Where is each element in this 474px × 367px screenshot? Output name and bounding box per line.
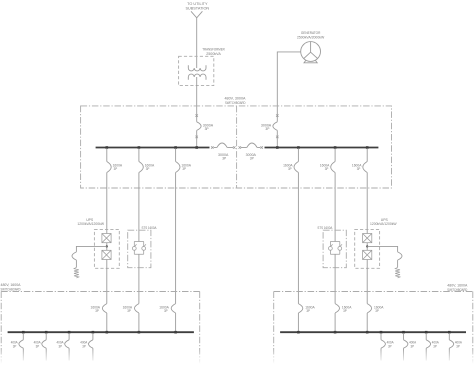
node: bus B feeder tap 1: [297, 146, 300, 149]
wire: bus D to feeder 1: [380, 333, 382, 340]
wire: breaker D3 to bus D: [366, 313, 368, 332]
svg-text:3P: 3P: [325, 167, 329, 171]
svg-text:3P: 3P: [357, 167, 361, 171]
wire: STS A output: [138, 254, 140, 303]
wire: feeder D2 load tail: [403, 348, 405, 360]
svg-text:SWITCHBOARD: SWITCHBOARD: [225, 101, 246, 105]
wire: breaker D2 to bus D: [334, 313, 336, 332]
incoming breaker D1 1600A: [298, 304, 302, 313]
svg-text:3P: 3P: [222, 157, 226, 161]
tie breaker left drawout contact: [211, 146, 214, 149]
wire: transformer secondary to switchboard: [196, 77, 198, 122]
wire: feeder C1 load tail: [22, 348, 24, 360]
wire: feeder A3 direct drop: [175, 173, 177, 304]
wire: breaker D1 to bus D: [297, 313, 299, 332]
wire: bus D to feeder 4: [448, 333, 450, 340]
wire: breaker 52-G1 to bus B: [276, 130, 278, 147]
node: bus C feeder tap 3: [68, 331, 71, 334]
wire: feeder B3 to UPS B: [366, 173, 368, 234]
wire: generator to switchboard: [277, 52, 300, 122]
wire: bus A to feeder breaker 1: [106, 148, 108, 161]
incoming breaker C3 1600A: [171, 304, 175, 313]
bus A 480V left: [96, 147, 210, 149]
node: bus C feeder tap 1: [22, 331, 25, 334]
svg-text:3P: 3P: [456, 344, 460, 348]
svg-text:3P: 3P: [411, 344, 415, 348]
incoming breaker D3 1600A: [367, 304, 371, 313]
svg-text:480V, 3000A: 480V, 3000A: [225, 97, 247, 101]
svg-text:3P: 3P: [82, 344, 86, 348]
node: bus D feeder tap 3: [425, 331, 428, 334]
svg-text:3P: 3P: [205, 127, 209, 131]
feeder breaker C2 label: [34, 341, 41, 349]
svg-text:3P: 3P: [95, 309, 99, 313]
UPS B rectifier: [363, 234, 372, 243]
tie breaker left 3000A: [217, 143, 227, 148]
bus D 480V 1600A: [280, 331, 466, 333]
switchboard C 480V 1600A label: [1, 283, 22, 292]
switchboard 480V 3000A enclosure: [81, 106, 392, 188]
incoming breaker C2 1600A: [135, 304, 139, 313]
svg-text:480V, 1600A: 480V, 1600A: [447, 283, 468, 287]
switchboard D 480V 1600A label: [447, 283, 468, 292]
feeder breaker D4 label: [455, 341, 462, 349]
node: bus D incomer tap 2: [334, 331, 337, 334]
node: TO UTILITY SUBSTATION label: [185, 2, 209, 11]
feeder breaker D1 label: [387, 341, 394, 349]
wire: breaker C2 to bus C: [138, 313, 140, 332]
STS B static switch: [329, 242, 343, 255]
wire: tie left stub: [214, 147, 217, 149]
wire: bus B to feeder breaker 1: [297, 148, 299, 161]
feeder breaker B3 1600A: [363, 162, 367, 173]
STS B label: [317, 226, 332, 230]
svg-text:2500kVA: 2500kVA: [206, 52, 221, 56]
wire: bus B to feeder breaker 3: [366, 148, 368, 161]
svg-text:3P: 3P: [375, 309, 379, 313]
node: bus A transformer tap: [195, 146, 198, 149]
feeder breaker B2 label: [320, 163, 330, 171]
wire: feeder B2 to STS B: [334, 173, 336, 242]
svg-text:STS 1600A: STS 1600A: [317, 226, 332, 230]
svg-text:3P: 3P: [59, 344, 63, 348]
breaker main 52-T1 drawout contact bottom: [195, 136, 198, 139]
node: bus D feeder tap 2: [402, 331, 405, 334]
bus C 480V 1600A: [8, 331, 194, 333]
tie breaker right label: [246, 153, 257, 161]
breaker main 52-T1 drawout contact top: [195, 114, 198, 117]
switchboard D enclosure: [274, 292, 473, 365]
svg-text:3P: 3P: [127, 309, 131, 313]
switchboard center divider: [236, 106, 238, 188]
feeder breaker D1 400A: [381, 340, 385, 348]
wire: bus B to feeder breaker 2: [334, 148, 336, 161]
node: bus A feeder tap 3: [174, 146, 177, 149]
node: bus B feeder tap 3: [366, 146, 369, 149]
wire: bus A to feeder breaker 3: [175, 148, 177, 161]
STS A static switch: [132, 242, 146, 255]
wire: breaker 52-T1 to bus A: [196, 130, 198, 147]
wire: tie left to divider: [227, 147, 233, 149]
wire: breaker C1 to bus C: [106, 313, 108, 332]
node: bus C feeder tap 2: [45, 331, 48, 334]
breaker main 52-G1 drawout contact top: [276, 114, 279, 117]
node: bus D feeder tap 1: [380, 331, 383, 334]
tie breaker left label: [218, 153, 229, 161]
tie breaker right 3000A: [247, 143, 257, 148]
wire: bus D to feeder 3: [425, 333, 427, 340]
incoming breaker D2 1600A: [335, 304, 339, 313]
wire: feeder D3 load tail: [425, 348, 427, 360]
wire: feeder C3 load tail: [68, 348, 70, 360]
wire: tie right to bus B: [257, 147, 260, 149]
wire: UPS B output: [366, 260, 368, 304]
wire: rectifier to inverter B: [366, 243, 368, 251]
wire: bus A to feeder breaker 2: [138, 148, 140, 161]
wire: rectifier to inverter: [106, 243, 108, 251]
wire: feeder A2 to STS A: [138, 173, 140, 242]
node: bus C incomer tap 3: [174, 331, 177, 334]
svg-text:3P: 3P: [306, 309, 310, 313]
node: bus D feeder tap 4: [448, 331, 451, 334]
svg-text:3P: 3P: [250, 157, 254, 161]
wire: bus C to feeder 1: [22, 333, 24, 340]
UPS B enclosure: [355, 229, 380, 268]
transformer T1 label: [202, 47, 225, 56]
incoming breaker D3 label: [374, 305, 384, 313]
node: bus A feeder tap 2: [138, 146, 141, 149]
UPS A battery breaker: [72, 252, 76, 260]
feeder breaker D3 400A: [426, 340, 430, 348]
wire: bus C to feeder 4: [92, 333, 94, 340]
svg-text:GENERATOR: GENERATOR: [301, 31, 321, 35]
UPS A enclosure: [94, 229, 119, 268]
wire: bus C to feeder 3: [68, 333, 70, 340]
feeder breaker A2 label: [145, 163, 155, 171]
feeder breaker D3 label: [432, 341, 439, 349]
bus B 480V right: [265, 147, 379, 149]
feeder breaker C4 400A: [89, 340, 93, 348]
STS B enclosure: [323, 230, 346, 268]
wire: bus D to feeder 2: [403, 333, 405, 340]
wire: UPS A battery branch: [76, 246, 106, 252]
node: bus D incomer tap 1: [297, 331, 300, 334]
switchboard C enclosure: [1, 292, 200, 365]
breaker main 52-G1 drawout contact bottom: [276, 136, 279, 139]
tie breaker right contact at divider: [239, 146, 242, 149]
wire: battery breaker to battery A: [75, 260, 77, 267]
wire: STS B output: [334, 254, 336, 303]
feeder breaker C2 400A: [42, 340, 46, 348]
wire: tie right stub: [241, 147, 247, 149]
svg-text:3P: 3P: [343, 309, 347, 313]
transformer T1 primary winding: [188, 65, 206, 71]
svg-text:3P: 3P: [146, 167, 150, 171]
wire: feeder B1 direct drop: [297, 173, 299, 304]
feeder breaker C3 400A: [65, 340, 69, 348]
incoming breaker C1 1600A: [102, 304, 106, 313]
battery B: [395, 267, 400, 278]
tie breaker left contact at divider: [233, 146, 236, 149]
breaker main 52-T1 label: [203, 123, 214, 131]
UPS A rectifier: [102, 234, 111, 243]
incoming breaker D2 label: [342, 305, 352, 313]
svg-text:3P: 3P: [288, 167, 292, 171]
incoming breaker D1 label: [305, 305, 315, 313]
wire: feeder C4 load tail: [92, 348, 94, 360]
incoming breaker C3 label: [159, 305, 169, 313]
svg-text:3P: 3P: [13, 344, 17, 348]
svg-text:3P: 3P: [388, 344, 392, 348]
incoming breaker C1 label: [91, 305, 101, 313]
svg-text:SUBSTATION: SUBSTATION: [185, 7, 209, 11]
svg-text:1200kVA/1200kW: 1200kVA/1200kW: [370, 222, 397, 226]
feeder breaker C1 label: [11, 341, 18, 349]
feeder breaker B2 1600A: [331, 162, 335, 173]
wire: feeder D4 load tail: [448, 348, 450, 360]
wire: feeder D1 load tail: [380, 348, 382, 360]
utility incoming chevron: [191, 11, 202, 17]
UPS B battery breaker: [398, 252, 402, 260]
svg-text:STS 1600A: STS 1600A: [142, 226, 157, 230]
incoming breaker C2 label: [123, 305, 133, 313]
svg-text:480V, 1600A: 480V, 1600A: [1, 283, 22, 287]
wire: feeder A1 to UPS A: [106, 173, 108, 234]
node: bus C feeder tap 4: [92, 331, 95, 334]
feeder breaker D2 label: [409, 341, 416, 349]
generator G1: [301, 42, 321, 63]
feeder breaker B1 1600A: [294, 162, 298, 173]
node: bus A feeder tap 1: [106, 146, 109, 149]
STS A enclosure: [128, 230, 151, 268]
feeder breaker A1 label: [113, 163, 123, 171]
feeder breaker B1 label: [283, 163, 293, 171]
node: bus C incomer tap 1: [106, 331, 109, 334]
wire: feeder C2 load tail: [45, 348, 47, 360]
svg-text:TO UTILITY: TO UTILITY: [187, 2, 208, 6]
wire: UPS A output: [106, 260, 108, 304]
transformer T1 secondary winding: [188, 74, 206, 80]
switchboard 480V 3000A label: [225, 97, 247, 106]
UPS B label: [370, 218, 397, 226]
STS A label: [142, 226, 157, 230]
svg-text:3P: 3P: [182, 167, 186, 171]
wire: breaker C3 to bus C: [175, 313, 177, 332]
feeder breaker A3 1600A: [176, 162, 180, 173]
svg-text:UPS: UPS: [86, 218, 94, 222]
feeder breaker A1 1600A: [107, 162, 111, 173]
svg-text:2500kVA/2000kW: 2500kVA/2000kW: [297, 36, 325, 40]
svg-text:UPS: UPS: [381, 218, 389, 222]
generator G1 label: [297, 31, 325, 40]
breaker main 52-G1 3000A: [273, 122, 277, 131]
feeder breaker D4 400A: [449, 340, 453, 348]
svg-text:TRANSFORMER: TRANSFORMER: [202, 47, 225, 51]
feeder breaker D2 400A: [404, 340, 408, 348]
tie breaker right drawout contact: [260, 146, 263, 149]
breaker main 52-T1 3000A: [197, 122, 201, 131]
UPS B inverter: [363, 250, 372, 259]
feeder breaker B3 label: [352, 163, 362, 171]
feeder breaker C3 label: [57, 341, 64, 349]
breaker main 52-G1 label: [261, 123, 272, 131]
transformer T1 enclosure: [179, 56, 214, 85]
svg-text:3P: 3P: [36, 344, 40, 348]
node: bus B feeder tap 2: [334, 146, 337, 149]
node: bus D incomer tap 3: [366, 331, 369, 334]
svg-text:3P: 3P: [265, 127, 269, 131]
feeder breaker A2 1600A: [139, 162, 143, 173]
battery A: [74, 267, 79, 278]
feeder breaker C1 400A: [19, 340, 23, 348]
feeder breaker A3 label: [181, 163, 191, 171]
wire: battery breaker to battery B: [397, 260, 399, 267]
wire: UPS B battery branch: [367, 246, 397, 252]
svg-text:3P: 3P: [164, 309, 168, 313]
svg-text:3P: 3P: [114, 167, 118, 171]
feeder breaker C4 label: [80, 341, 87, 349]
node: UPS B DC link: [366, 246, 368, 248]
wire: utility drop to transformer: [196, 18, 198, 68]
UPS A label: [77, 218, 104, 226]
svg-text:3P: 3P: [433, 344, 437, 348]
svg-text:1200kVA/1200kW: 1200kVA/1200kW: [77, 222, 104, 226]
svg-text:SWITCHBOARD: SWITCHBOARD: [1, 288, 21, 292]
node: UPS A DC link: [106, 246, 108, 248]
node: bus C incomer tap 2: [138, 331, 141, 334]
wire: bus C to feeder 2: [45, 333, 47, 340]
node: bus B generator tap: [276, 146, 279, 149]
UPS A inverter: [102, 250, 111, 259]
